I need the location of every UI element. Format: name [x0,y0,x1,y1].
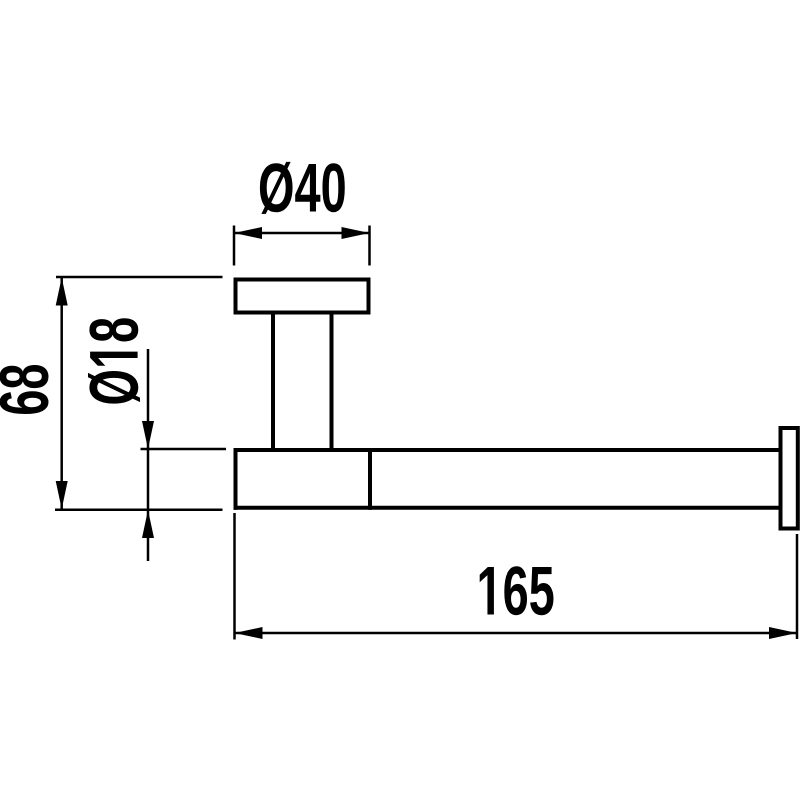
dim 165 extension line left [233,513,236,640]
bar holder divider [368,448,372,510]
dim 68 arrow bottom [56,481,68,509]
dim 165 line [235,632,798,635]
label 165 [480,566,554,615]
dim O40 arrow right [342,227,370,239]
post right edge wire [330,314,334,451]
dim 68 extension line top [56,276,223,279]
dim O18 arrow up [142,510,154,538]
dim O40 extension line right [368,226,371,266]
dim 165 arrow right [769,627,797,639]
dim O40 arrow left [234,227,262,239]
dim 165 extension line right [796,534,799,639]
dim 165 arrow left [235,627,263,639]
dim 68 and O18 shared extension line bottom [55,509,223,512]
bar top edge [234,448,781,452]
label O40 [260,162,345,214]
wall flange plate [236,280,369,313]
dim O18 extension line top [141,448,227,451]
label O18 [88,318,140,403]
post left edge wire [271,314,275,451]
dim O18 line [147,349,150,561]
dim 68 line [60,277,63,510]
dim O40 extension line left [233,226,236,266]
end cap [781,428,798,529]
dim 68 arrow top [56,278,68,306]
bar bottom edge [234,506,781,510]
label 68 [0,365,49,414]
bar left end edge [234,448,238,510]
dim O18 arrow down [142,421,154,449]
dim O40 line [234,232,370,235]
